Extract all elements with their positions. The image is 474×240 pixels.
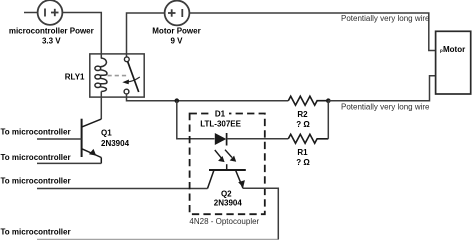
relay switch contact bottom [124, 89, 129, 94]
wire to microcontroller 1 (Q1 base) [37, 138, 82, 140]
wire V1 negative stub [24, 12, 38, 14]
svg-text:RLY1: RLY1 [65, 72, 85, 81]
resistor R1 [288, 134, 328, 143]
relay actuator arrow [126, 77, 140, 82]
svg-text:3.3 V: 3.3 V [42, 37, 61, 46]
svg-text:Q2: Q2 [221, 189, 232, 198]
motor M box [436, 31, 471, 94]
transistor Q1 [82, 119, 102, 164]
svg-text:R1: R1 [297, 148, 308, 157]
svg-text:Potentially very long wire: Potentially very long wire [341, 102, 430, 111]
svg-text:4N28 - Optocoupler: 4N28 - Optocoupler [189, 217, 259, 226]
wire V1 positive to relay coil [62, 13, 101, 59]
optocoupler 4N28 dashed box [190, 114, 265, 215]
svg-text:R2: R2 [297, 110, 308, 119]
Q2 emitter arrow [238, 180, 245, 187]
wire R1 up to node B [327, 101, 329, 139]
svg-text:2N3904: 2N3904 [214, 199, 243, 208]
node junction dot A [175, 98, 180, 103]
svg-text:To microcontroller: To microcontroller [1, 177, 71, 186]
svg-text:microcontroller Power: microcontroller Power [9, 27, 94, 36]
svg-text:2N3904: 2N3904 [101, 139, 130, 148]
relay switch contact top [124, 57, 129, 62]
LED D1 [215, 133, 227, 145]
phototransistor Q2 [208, 164, 246, 188]
D1 label white backing [211, 110, 229, 119]
wire node B to motor (potentially very long wire, bottom) [328, 76, 435, 101]
wire to microcontroller 3 (Q2 collector) [37, 188, 208, 190]
wire V2 positive to motor (potentially very long wire, top) [189, 13, 436, 51]
svg-text:Motor: Motor [443, 45, 465, 54]
resistor R2 [288, 96, 328, 105]
svg-text:? Ω: ? Ω [296, 120, 310, 129]
relay coil [95, 58, 107, 91]
relay RLY1 box [90, 54, 144, 97]
svg-text:To microcontroller: To microcontroller [1, 128, 71, 137]
node junction dot B [326, 98, 331, 103]
relay actuator dashed line [108, 75, 129, 77]
relay switch blade [128, 62, 139, 92]
svg-text:D1: D1 [215, 109, 226, 118]
svg-text:To microcontroller: To microcontroller [1, 228, 71, 237]
svg-text:LTL-307EE: LTL-307EE [200, 120, 241, 129]
svg-text:Potentially very long wire: Potentially very long wire [341, 14, 430, 23]
wire LED cathode to R1 [227, 138, 289, 140]
svg-text:Motor Power: Motor Power [152, 27, 200, 36]
wire to microcontroller 4 (Q2 emitter) [37, 239, 279, 240]
voltage source V2 motor power [165, 1, 190, 26]
wire V2 negative to relay switch [127, 13, 166, 57]
wire node A down to LED branch [177, 101, 215, 139]
Q1 emitter arrow [89, 149, 96, 156]
wire relay coil bottom to Q1 collector [100, 91, 102, 119]
voltage source V1 microcontroller power [38, 0, 63, 25]
svg-text:Q1: Q1 [101, 129, 112, 138]
wire relay switch bottom to R2 [127, 94, 289, 101]
LED light arrows [215, 150, 232, 158]
wire to microcontroller 2 (Q1 emitter) [37, 162, 101, 164]
wire Q2 emitter down to microcontroller 4 [243, 188, 278, 239]
svg-text:9 V: 9 V [170, 37, 183, 46]
svg-text:To microcontroller: To microcontroller [1, 153, 71, 162]
svg-text:? Ω: ? Ω [296, 158, 310, 167]
